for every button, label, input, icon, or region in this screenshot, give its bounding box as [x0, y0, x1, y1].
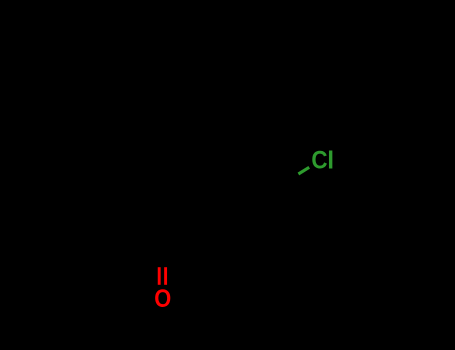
- bond C4a-C5 (ring B): [191, 184, 219, 200]
- bond C6-C7 (ring B): [247, 188, 259, 200]
- bond C2-C3 (ring A): [134, 200, 137, 232]
- bond C-phenyl: [219, 120, 247, 152]
- C=O line 1: [158, 267, 161, 285]
- bond C4a-C8a (ring fusion): [190, 200, 193, 232]
- bond C3-C4 (ring A): [135, 184, 163, 200]
- bond C4-C4a (ring A): [163, 184, 191, 200]
- bond C1-C2 (ring A): [135, 232, 163, 248]
- hidden molecular skeleton (black bonds on black background): [135, 120, 299, 268]
- red double bond C=O (two parallel red lines): [159, 267, 165, 285]
- C=O line 2: [164, 267, 167, 285]
- bond C8a-C1 (ring A): [163, 232, 191, 248]
- bond C7-C8 (ring B): [259, 181, 287, 188]
- black upper halves of C=O double bond: [158, 249, 161, 268]
- bond C5-C6 (ring B): [219, 184, 247, 200]
- bond C8-C8a (ring B): [218, 152, 221, 184]
- svg-text:O: O: [154, 285, 171, 313]
- svg-text:C: C: [311, 147, 327, 175]
- green half of C-Cl bond: [298, 167, 309, 174]
- svg-text:l: l: [327, 148, 334, 175]
- black half of C-Cl bond: [287, 174, 299, 181]
